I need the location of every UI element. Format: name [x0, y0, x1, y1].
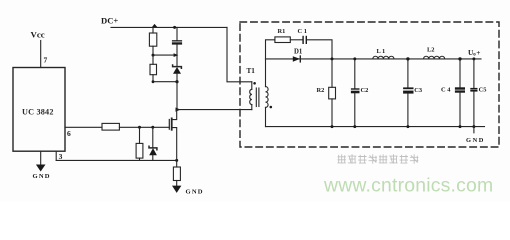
transformer primary winding [251, 82, 253, 90]
resistor R gate series [102, 123, 119, 130]
node junction dot [151, 126, 154, 129]
wire secondary bottom lead [265, 107, 267, 126]
inductor L2 [424, 56, 445, 59]
transistor Q1 MOSFET [168, 120, 170, 130]
wire zener branch [152, 127, 154, 147]
junction arrow mark on rail [152, 24, 158, 27]
node primary dot [253, 82, 256, 85]
resistor startup lower [152, 55, 154, 64]
transformer secondary winding [266, 87, 269, 108]
wire bottom rail [266, 126, 485, 128]
svg-text:+: + [476, 48, 480, 57]
dashed box output filter [240, 22, 499, 147]
capacitor C4 [459, 59, 461, 87]
resistor startup upper [152, 27, 154, 33]
svg-text:GND: GND [186, 189, 204, 196]
svg-text:T1: T1 [247, 67, 256, 75]
svg-text:L 1: L 1 [377, 48, 386, 55]
wire source to resistor [176, 160, 178, 167]
wire clamp to drain node [176, 82, 178, 110]
wire pin 6 to resistor [65, 126, 102, 128]
svg-text:DC+: DC+ [101, 16, 118, 26]
svg-text:UC 3842: UC 3842 [22, 108, 54, 117]
svg-text:6: 6 [67, 129, 71, 138]
svg-text:L2: L2 [427, 47, 434, 54]
diode clamp [176, 55, 178, 66]
svg-text:GND: GND [466, 137, 485, 144]
zener D gate clamp [149, 146, 157, 149]
wire rail corner down to transformer [227, 27, 252, 81]
node dots bottom rail [331, 125, 334, 128]
ground GND at source [172, 186, 181, 193]
wire snubber loop [266, 40, 275, 59]
capacitor C3 [407, 59, 409, 88]
transformer core [255, 88, 257, 107]
op-amp U1 UC3842 box [13, 68, 65, 152]
wire secondary top lead [265, 59, 267, 87]
svg-text:C5: C5 [479, 87, 487, 94]
svg-text:C3: C3 [414, 87, 422, 94]
svg-text:D1: D1 [294, 49, 303, 56]
svg-text:GND: GND [33, 173, 51, 180]
wire gate node down [139, 127, 141, 143]
svg-text:R1: R1 [278, 28, 286, 35]
resistor gate-source [136, 143, 143, 158]
node junction dot [138, 126, 141, 129]
wire node A [153, 54, 177, 56]
node secondary dot [270, 106, 273, 109]
node junction dot source [175, 159, 178, 162]
resistor source sense [173, 167, 180, 181]
wire [139, 158, 141, 160]
node junction dot [173, 26, 176, 29]
pin 3 notch [55, 151, 57, 160]
svg-text:C 1: C 1 [298, 28, 307, 35]
wire GND stub [473, 127, 475, 133]
svg-text:C2: C2 [361, 87, 369, 94]
svg-text:www.cntronics.com: www.cntronics.com [323, 175, 493, 197]
wire Vcc to pin 7 [40, 41, 42, 68]
caption 输出整流滤波电路 (drawn glyph blocks) [338, 154, 419, 163]
capacitor C1 [302, 36, 303, 44]
wire drain line to transformer [177, 109, 252, 111]
resistor R2 [331, 59, 333, 87]
svg-text:R2: R2 [317, 87, 325, 94]
wire DC+ rail [111, 26, 227, 28]
wire IC to ground [40, 151, 42, 164]
svg-text:7: 7 [44, 56, 48, 65]
resistor R1 [275, 37, 290, 43]
svg-text:C 4: C 4 [441, 87, 451, 94]
svg-text:Vcc: Vcc [31, 30, 45, 40]
capacitor clamp C [176, 27, 178, 40]
capacitor C2 [354, 59, 356, 88]
junction arrow at drain corner [176, 108, 181, 112]
wire node B [153, 81, 177, 83]
wire [307, 40, 332, 59]
wire resistor to gate [119, 126, 169, 128]
wire pin 3 line [56, 159, 177, 161]
inductor L1 [373, 56, 394, 59]
wire top rail [266, 58, 482, 60]
ground GND under IC [36, 165, 46, 172]
wire [290, 39, 302, 41]
capacitor C5 [473, 59, 475, 88]
node dots top rail [331, 57, 334, 60]
